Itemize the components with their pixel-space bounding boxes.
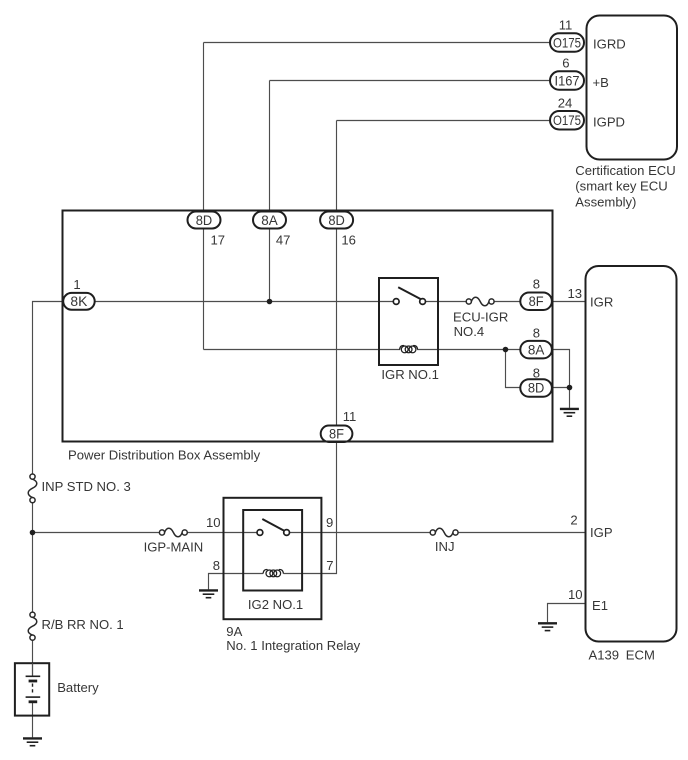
svg-text:8D: 8D (528, 381, 545, 396)
svg-text:7: 7 (326, 558, 333, 573)
svg-text:8K: 8K (70, 294, 88, 309)
connector oval 8D pin 16 (320, 212, 353, 229)
wire 8A-47 to +B (net +B) (270, 81, 551, 212)
ground of battery (23, 738, 42, 745)
battery (15, 663, 99, 715)
relay IG2 switch contact left (257, 530, 263, 536)
relay IG2 switch blade (262, 519, 284, 531)
svg-text:10: 10 (568, 587, 583, 602)
ground of IG2 coil pin 8 (199, 590, 218, 597)
relay IG2 coil (263, 570, 283, 577)
svg-text:9: 9 (326, 515, 333, 530)
wire battery to ground (32, 702, 34, 738)
svg-text:A139: A139 (589, 648, 620, 663)
svg-text:Battery: Battery (57, 680, 99, 695)
wire 8D-17 to IGRD (net IGRD) (204, 43, 551, 350)
svg-text:R/B RR NO. 1: R/B RR NO. 1 (42, 617, 124, 632)
svg-text:8D: 8D (196, 213, 213, 228)
svg-text:O175: O175 (553, 35, 581, 50)
svg-text:8F: 8F (529, 294, 544, 309)
wire coil to 8A (417, 349, 520, 351)
svg-text:8A: 8A (261, 213, 278, 228)
svg-text:Power Distribution Box Assembl: Power Distribution Box Assembly (68, 448, 261, 463)
svg-text:8: 8 (533, 365, 540, 380)
svg-text:1: 1 (73, 277, 80, 292)
svg-text:11: 11 (559, 18, 573, 33)
svg-text:IGPD: IGPD (593, 115, 625, 130)
connector oval O175 pin 24 (550, 111, 584, 130)
relay IGR NO.1 switch contact right (420, 299, 426, 305)
wire ECM E1 to ground (548, 604, 586, 623)
wire 8A-47 drop to main node (269, 229, 271, 302)
connector oval I167 pin 6 (550, 71, 584, 90)
wire relay to fuse ECU-IGR (426, 301, 467, 303)
wire 8D to ground leg (552, 387, 570, 389)
connector oval 8K pin 1 (63, 293, 94, 310)
junction node battery rail / row2 (30, 530, 36, 536)
ground of 8A-8D net (560, 409, 579, 416)
svg-text:INP STD NO. 3: INP STD NO. 3 (42, 479, 131, 494)
svg-text:Certification ECU: Certification ECU (575, 163, 675, 178)
connector oval 8D pin 8 right (520, 379, 552, 397)
fuse INP STD NO. 3 (28, 474, 131, 503)
svg-text:IGR NO.1: IGR NO.1 (381, 367, 438, 382)
svg-text:2: 2 (570, 512, 577, 527)
wire main row: 8K to relay switch (95, 301, 394, 303)
wire left rail from 8K (33, 302, 64, 475)
junction node main/8A-47 (267, 299, 273, 305)
svg-text:IGP: IGP (590, 525, 613, 540)
wire 8D-16 drop through box to 8F-11 (336, 229, 338, 426)
fuse ECU-IGR NO.4 (453, 297, 508, 339)
svg-text:8A: 8A (528, 342, 545, 357)
fuse IGP-MAIN (144, 528, 204, 554)
svg-text:8D: 8D (328, 213, 345, 228)
relay IG2 switch contact right (284, 530, 290, 536)
svg-text:24: 24 (558, 95, 573, 110)
Certification ECU box (587, 16, 678, 160)
svg-text:IGRD: IGRD (593, 37, 626, 52)
relay IGR NO.1 coil (400, 346, 418, 353)
svg-text:IGR: IGR (590, 294, 613, 309)
wire IG2 coil left to ground (209, 574, 264, 590)
fuse R/B RR NO. 1 (28, 612, 123, 640)
svg-text:IG2 NO.1: IG2 NO.1 (248, 597, 303, 612)
wire coil row: 8D-17 leg to coil (204, 349, 401, 351)
svg-text:IGP-MAIN: IGP-MAIN (144, 539, 204, 554)
svg-text:8: 8 (213, 558, 220, 573)
connector oval 8D pin 17 (188, 212, 221, 229)
relay IGR NO.1 switch contact left (393, 299, 399, 305)
svg-text:8: 8 (533, 277, 540, 292)
relay IGR NO.1 switch blade (398, 287, 420, 299)
ECM box A139 (586, 266, 677, 642)
ground of ECM E1 (538, 623, 557, 630)
wire fuse IGP-MAIN to IG2 switch (187, 532, 257, 534)
svg-text:17: 17 (211, 232, 226, 247)
relay IG2 NO.1 outer box (No. 1 Integration Relay) (224, 498, 322, 619)
svg-text:8F: 8F (329, 427, 344, 442)
svg-text:ECU-IGR: ECU-IGR (453, 309, 508, 324)
svg-text:10: 10 (206, 515, 221, 530)
svg-text:Assembly): Assembly) (575, 194, 636, 209)
wire left rail to battery (32, 640, 34, 676)
svg-text:+B: +B (593, 75, 610, 90)
svg-text:47: 47 (276, 232, 291, 247)
wire 8F to ECM IGR pin 13 (552, 301, 586, 303)
wire IG2 switch to fuse INJ (290, 532, 431, 534)
wire 8D-16 to IGPD (net IGPD) (337, 121, 551, 212)
fuse INJ (430, 528, 458, 554)
wire IG2 coil inner right (283, 573, 302, 575)
svg-text:9A: 9A (226, 624, 242, 639)
junction node ground of 8A-8D (567, 385, 573, 391)
connector oval 8F pin 11 bottom (321, 426, 353, 443)
Power Distribution Box Assembly box (63, 211, 553, 442)
relay IG2 NO.1 inner box (243, 510, 302, 591)
wire left rail between fuses (32, 503, 34, 612)
relay IGR NO.1 box (379, 278, 438, 365)
svg-text:INJ: INJ (435, 539, 455, 554)
svg-text:NO.4: NO.4 (454, 324, 485, 339)
svg-text:No. 1 Integration Relay: No. 1 Integration Relay (226, 638, 360, 653)
junction node coil/8A-8D (503, 347, 509, 353)
wire 8A to ground leg (552, 350, 570, 408)
svg-text:16: 16 (341, 232, 356, 247)
connector oval 8A pin 47 (253, 212, 286, 229)
svg-text:8: 8 (533, 326, 540, 341)
svg-text:I167: I167 (555, 73, 580, 88)
svg-text:13: 13 (568, 286, 583, 301)
wire row2: junction to fuse IGP-MAIN (33, 532, 160, 534)
svg-text:ECM: ECM (626, 648, 655, 663)
connector oval 8F pin 8 right (520, 293, 552, 311)
wire junction drop to 8D (506, 350, 521, 388)
wire fuse to 8F (494, 301, 520, 303)
svg-text:11: 11 (343, 409, 357, 424)
svg-text:6: 6 (562, 56, 569, 71)
connector oval O175 pin 11 (550, 33, 584, 52)
svg-text:E1: E1 (592, 598, 608, 613)
svg-text:O175: O175 (553, 113, 581, 128)
connector oval 8A pin 8 right (520, 341, 552, 359)
svg-text:(smart key ECU: (smart key ECU (575, 179, 667, 194)
wire fuse INJ to ECM IGP pin 2 (458, 532, 586, 534)
wire 8F-11 down to IG2 pin 7 (302, 442, 336, 574)
